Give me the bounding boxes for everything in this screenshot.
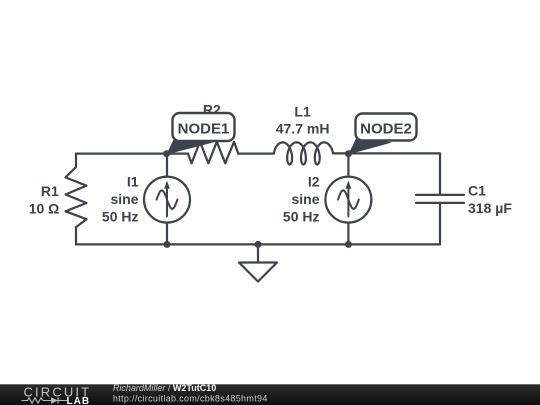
junction dot ground (255, 241, 262, 248)
svg-text:LAB: LAB (67, 396, 91, 405)
svg-text:RichardMiller / W2TutC10: RichardMiller / W2TutC10 (113, 383, 216, 393)
wire C1 bottom lead (439, 203, 441, 245)
svg-text:C1: C1 (468, 183, 486, 199)
wire C1 top lead (439, 154, 441, 195)
svg-text:47.7 mH: 47.7 mH (276, 120, 330, 136)
ground triangle (239, 263, 277, 282)
I1 sine symbol (157, 190, 178, 209)
junction dot I2 bottom (345, 241, 352, 248)
wire I2 bottom lead (347, 223, 349, 245)
NODE1 box (173, 113, 235, 141)
svg-text:I2: I2 (308, 174, 320, 190)
svg-text:318 µF: 318 µF (468, 200, 512, 216)
svg-text:10 Ω: 10 Ω (29, 201, 60, 217)
wire top rail left segment (76, 153, 188, 155)
ground stem (257, 244, 259, 262)
svg-text:sine: sine (291, 191, 319, 207)
NODE1 pointer (166, 137, 213, 155)
I1 arrowhead (164, 181, 170, 189)
svg-text:I1: I1 (127, 174, 139, 190)
inductor L1 (274, 142, 333, 164)
logo schematic squiggle (22, 397, 68, 403)
logo diode triangle (51, 397, 58, 404)
resistor R2 (188, 142, 238, 164)
svg-text:NODE2: NODE2 (360, 120, 412, 137)
I2 arrow shaft (347, 187, 349, 217)
wire L1 to top-right corner (333, 152, 440, 154)
svg-text:sine: sine (110, 191, 138, 207)
wire R2 to L1 (238, 153, 274, 155)
wire I1 top lead (166, 154, 168, 177)
svg-text:NODE1: NODE1 (178, 120, 230, 137)
current source I1 circle (144, 177, 190, 223)
capacitor C1 plates (416, 195, 464, 203)
I2 sine symbol (338, 190, 359, 209)
svg-text:50 Hz: 50 Hz (102, 208, 139, 224)
svg-text:50 Hz: 50 Hz (283, 208, 320, 224)
resistor R1 (66, 154, 87, 245)
NODE2 box (356, 114, 417, 141)
NODE2 pointer (348, 137, 392, 155)
junction node dot NODE2 (345, 150, 352, 157)
junction node dot NODE1 (163, 150, 170, 157)
wire bottom rail (76, 243, 440, 245)
I1 arrow shaft (166, 187, 168, 217)
current source I2 circle (325, 177, 371, 223)
svg-text:R1: R1 (41, 183, 59, 199)
wire I2 top lead (347, 154, 349, 177)
I2 arrowhead (346, 181, 352, 189)
footer black bar (0, 384, 540, 405)
svg-text:http://circuitlab.com/cbk8s485: http://circuitlab.com/cbk8s485hmt94 (113, 393, 268, 403)
svg-text:L1: L1 (294, 104, 311, 120)
wire I1 bottom lead (166, 223, 168, 245)
junction dot I1 bottom (164, 241, 171, 248)
